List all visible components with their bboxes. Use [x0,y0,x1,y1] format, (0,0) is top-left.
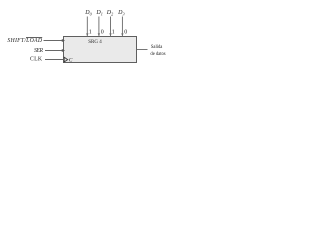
svg-text:SRG 4: SRG 4 [88,39,102,45]
arrowhead D0 wire [86,33,88,36]
wire SER input [45,50,63,52]
wire D1 input [98,17,100,37]
svg-text:de datos: de datos [150,51,165,57]
wire D0 input [86,17,88,37]
arrowhead D1 wire [98,33,100,36]
svg-text:Salida: Salida [151,44,163,50]
svg-text:CLK: CLK [30,56,43,62]
background [0,0,178,73]
arrowhead SHIFT/LOAD [62,39,65,42]
svg-text:D1: D1 [95,10,102,17]
svg-text:D2: D2 [106,10,113,17]
svg-text:1: 1 [89,29,92,35]
svg-text:C: C [69,57,73,63]
svg-text:D0: D0 [84,10,92,17]
svg-text:D3: D3 [117,10,124,17]
svg-text:0: 0 [101,29,104,35]
register U1 SRG 4 body [64,37,137,63]
arrowhead D2 wire [109,33,111,36]
wire serial data output [137,49,148,51]
svg-text:SHIFT/LOAD: SHIFT/LOAD [7,38,42,44]
wire CLK input [45,59,64,61]
clock dynamic indicator triangle [64,57,68,62]
arrowhead SER [62,49,65,52]
wire SHIFT/LOAD input [44,40,64,42]
label SHIFT/LOAD with overline on LOAD [7,37,42,44]
svg-text:SER: SER [34,48,43,54]
wire D2 input [110,17,112,37]
wire D3 input [121,17,123,37]
svg-text:0: 0 [124,29,127,35]
label Salida de datos [150,44,165,57]
arrowhead D3 wire [121,33,123,36]
svg-text:1: 1 [112,29,115,35]
